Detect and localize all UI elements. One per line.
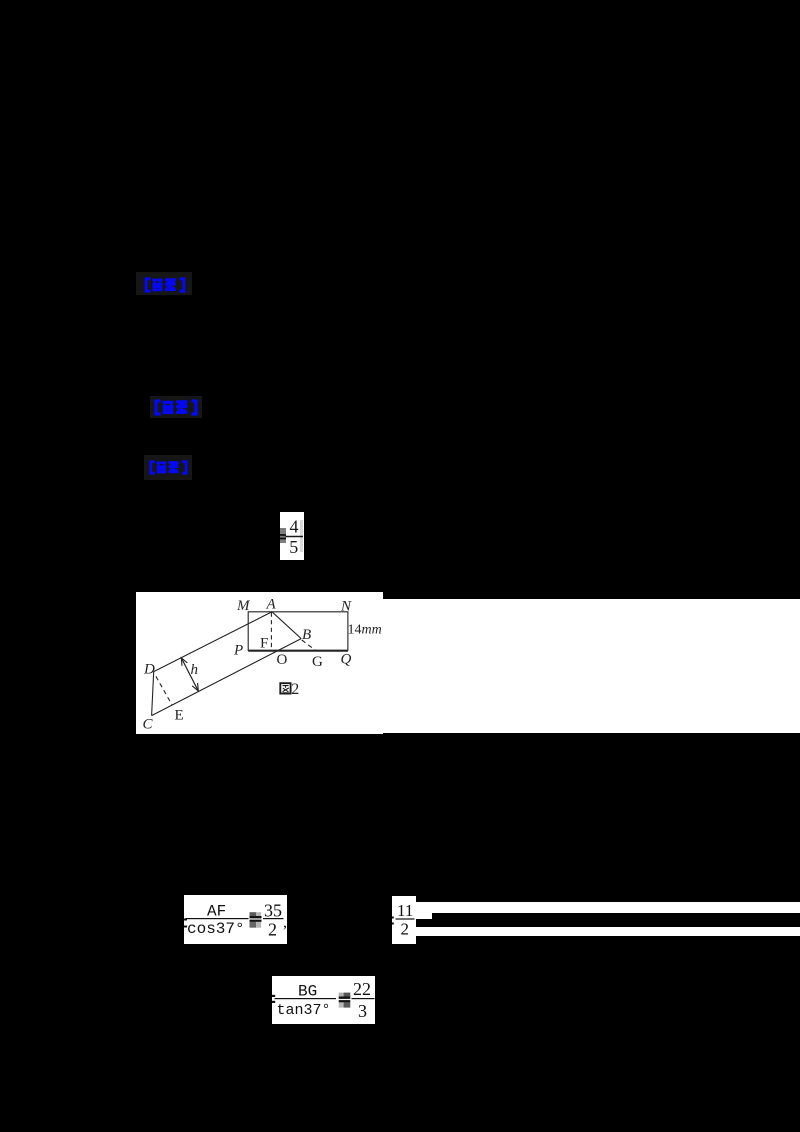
fraction bar 35/2	[263, 918, 284, 919]
fraction bar cos	[185, 918, 248, 919]
svg-text:tan37°: tan37°	[277, 1002, 331, 1019]
white stripe tongue	[416, 913, 432, 919]
dashed B-G	[302, 640, 316, 650]
svg-text:F: F	[260, 636, 268, 652]
label halo 1	[136, 272, 192, 295]
svg-text:B: B	[302, 627, 311, 643]
svg-text:AF: AF	[207, 903, 226, 921]
svg-text:D: D	[143, 662, 155, 678]
svg-text:G: G	[312, 654, 323, 670]
clipped equals at 4/5 left edge	[280, 533, 287, 541]
svg-text:2: 2	[291, 681, 299, 698]
fraction 4/5 white patch	[280, 512, 304, 560]
geometry figure svg	[136, 592, 800, 734]
BG expression	[272, 976, 376, 1024]
strip bottom edge C-O-B	[152, 639, 302, 716]
AF/cos37 white patch	[184, 895, 287, 944]
bold equals artifact	[339, 993, 344, 997]
bold equals artifact	[249, 912, 256, 916]
svg-text:P: P	[233, 643, 243, 659]
h double arrow	[181, 658, 198, 691]
dashed vertical A-F-O	[270, 613, 272, 651]
white stripe band 1	[416, 902, 800, 913]
fold line A-B	[272, 612, 301, 639]
svg-text:11: 11	[397, 901, 413, 920]
4/5 light gray strip	[300, 520, 303, 552]
svg-text:O: O	[277, 652, 288, 668]
fraction 4/5	[280, 512, 304, 560]
glyph 图 of 图2	[280, 683, 290, 693]
BG/tan37 white patch	[272, 976, 375, 1024]
4/5 gray artifact square	[280, 528, 286, 544]
rectangle bottom edge PQ (thicker)	[248, 650, 348, 652]
diagram white patch left part	[136, 592, 383, 734]
diagram white patch right part (notched at top-right)	[383, 599, 800, 733]
label L2 (blue bracketed CJK)	[152, 399, 200, 416]
svg-text:Q: Q	[341, 652, 352, 668]
clipped equals left edge	[272, 995, 275, 997]
dashed D-E	[156, 676, 172, 704]
svg-text:E: E	[175, 708, 184, 724]
strip left edge D-C	[152, 672, 154, 716]
svg-text:22: 22	[353, 979, 371, 999]
clipped equals left edge	[184, 919, 187, 921]
svg-text:M: M	[236, 598, 251, 614]
rectangle MNQP top/left/right	[248, 612, 348, 651]
svg-text:2: 2	[400, 919, 409, 938]
svg-text:BG: BG	[298, 983, 317, 1001]
svg-text:A: A	[266, 597, 277, 613]
fraction bar 22/3	[352, 998, 375, 999]
svg-text:3: 3	[358, 1001, 367, 1021]
label L3 (blue bracketed CJK)	[145, 460, 192, 475]
label L1 (blue bracketed CJK)	[142, 277, 188, 293]
svg-text:14mm: 14mm	[348, 623, 382, 638]
label halo 2	[150, 396, 202, 418]
svg-text:,: ,	[283, 914, 287, 931]
fraction bar 11/2	[395, 918, 414, 919]
label halo 3	[144, 455, 192, 480]
svg-text:cos37°: cos37°	[187, 920, 245, 938]
svg-text:h: h	[191, 662, 199, 678]
AF expression	[184, 895, 287, 944]
svg-text:2: 2	[268, 920, 277, 940]
strip top edge D-A	[154, 612, 272, 672]
svg-text:35: 35	[264, 901, 282, 921]
svg-text:4: 4	[290, 517, 299, 537]
fraction bar tan	[275, 998, 337, 999]
white stripe band 2	[416, 927, 800, 937]
11/2 white patch	[392, 896, 416, 944]
11/2 expression	[392, 896, 417, 944]
svg-text:N: N	[340, 599, 352, 615]
svg-text:C: C	[143, 717, 154, 733]
svg-text:5: 5	[289, 537, 298, 557]
clipped equals left edge	[392, 916, 394, 918]
